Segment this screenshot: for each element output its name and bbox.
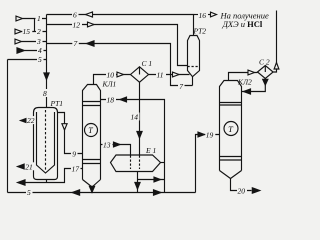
bypass wire from node 18 down right of E1 bbox=[140, 100, 165, 193]
wire 12 into RT2 side bbox=[47, 20, 188, 65]
condenser C1 (diamond) bbox=[131, 59, 153, 82]
svg-text:22: 22 bbox=[27, 116, 35, 125]
column KL1 bbox=[83, 79, 118, 187]
wire 9 RT1 to KL1 bbox=[58, 113, 83, 159]
wire 11 from C1 to RT2 bbox=[149, 70, 190, 79]
wire 7 from RT2 bottom back to bus bbox=[47, 39, 193, 91]
wire feed 2 with label 15 bbox=[15, 27, 47, 36]
column KL2 bbox=[220, 78, 253, 179]
svg-text:10: 10 bbox=[107, 70, 115, 79]
svg-text:17: 17 bbox=[72, 165, 80, 174]
C2 reflux back to KL2 bbox=[242, 79, 268, 95]
svg-text:7: 7 bbox=[74, 39, 78, 48]
tie wire E1 to right bypass bbox=[138, 177, 165, 182]
main bottom recycle wire bbox=[8, 188, 196, 197]
vessel RT2 bbox=[188, 27, 207, 86]
svg-text:14: 14 bbox=[131, 113, 139, 122]
wire 19 feed to KL2 bbox=[196, 130, 220, 192]
wire feed 3 bbox=[15, 37, 47, 46]
wire feed 1 bbox=[16, 14, 47, 23]
wire 8 into RT1 bbox=[42, 60, 49, 108]
E1 bottom drain bbox=[135, 172, 140, 193]
wire 18 reflux into KL1 bbox=[101, 96, 140, 105]
RT2 riser to line 6/16 bbox=[193, 15, 195, 36]
svg-text:16: 16 bbox=[199, 11, 207, 20]
svg-text:ДХЭ и HCl: ДХЭ и HCl bbox=[222, 19, 263, 29]
reactor RT1 outer shell bbox=[34, 99, 66, 180]
wire KL2 top to C2 bbox=[229, 70, 258, 80]
svg-text:12: 12 bbox=[73, 20, 81, 29]
wire 20 bottoms product bbox=[231, 179, 260, 196]
svg-text:3: 3 bbox=[36, 37, 41, 46]
svg-text:РТ2: РТ2 bbox=[193, 27, 207, 36]
C2 overhead product up bbox=[273, 11, 279, 73]
svg-text:20: 20 bbox=[238, 186, 246, 195]
left recycle riser bbox=[7, 60, 9, 193]
svg-text:КЛ2: КЛ2 bbox=[237, 78, 252, 87]
svg-text:19: 19 bbox=[206, 130, 214, 139]
wire feed 4 (filled arrow) bbox=[17, 46, 47, 55]
wire 6 (to bus, open left arrow) bbox=[47, 10, 195, 19]
svg-text:7: 7 bbox=[179, 82, 183, 91]
wire 17 from KL1 out left bbox=[18, 165, 83, 186]
svg-text:15: 15 bbox=[23, 27, 31, 36]
svg-text:5: 5 bbox=[27, 188, 31, 197]
wire feed 5 from left riser bbox=[8, 55, 47, 64]
svg-text:11: 11 bbox=[157, 70, 164, 79]
tank E1 bbox=[111, 146, 165, 172]
svg-text:6: 6 bbox=[73, 10, 77, 19]
svg-text:9: 9 bbox=[72, 149, 76, 158]
svg-text:4: 4 bbox=[38, 46, 42, 55]
wire 10 from KL1 top to C1 bbox=[94, 70, 131, 84]
svg-text:8: 8 bbox=[43, 89, 47, 98]
svg-text:1: 1 bbox=[37, 14, 41, 23]
svg-text:2: 2 bbox=[37, 27, 41, 36]
junction tick between feed1 and feed2 bbox=[34, 19, 36, 32]
svg-text:Т: Т bbox=[88, 126, 93, 135]
RT1 bottom stub to wire 17 bbox=[46, 180, 48, 183]
svg-text:5: 5 bbox=[38, 55, 42, 64]
svg-text:13: 13 bbox=[103, 140, 111, 149]
bus vertical bbox=[46, 15, 48, 60]
wire from C1 bottom down (reflux/14) bbox=[130, 82, 143, 155]
svg-text:Е 1: Е 1 bbox=[145, 146, 156, 155]
KL1 bottom drain arrow bbox=[89, 186, 94, 192]
condenser C2 (diamond) bbox=[258, 58, 274, 79]
svg-text:С 2: С 2 bbox=[259, 58, 270, 67]
wire 21 out of RT1 bbox=[18, 162, 35, 171]
wire 22 out of RT1 bbox=[21, 116, 36, 125]
svg-text:21: 21 bbox=[25, 163, 33, 172]
svg-text:С 1: С 1 bbox=[142, 59, 153, 68]
wire 13 from KL1 to E1 bbox=[101, 140, 131, 155]
svg-text:18: 18 bbox=[107, 96, 115, 105]
svg-text:КЛ1: КЛ1 bbox=[102, 79, 117, 88]
wire 16 to product text bbox=[195, 11, 217, 20]
svg-text:РТ1: РТ1 bbox=[50, 99, 64, 108]
